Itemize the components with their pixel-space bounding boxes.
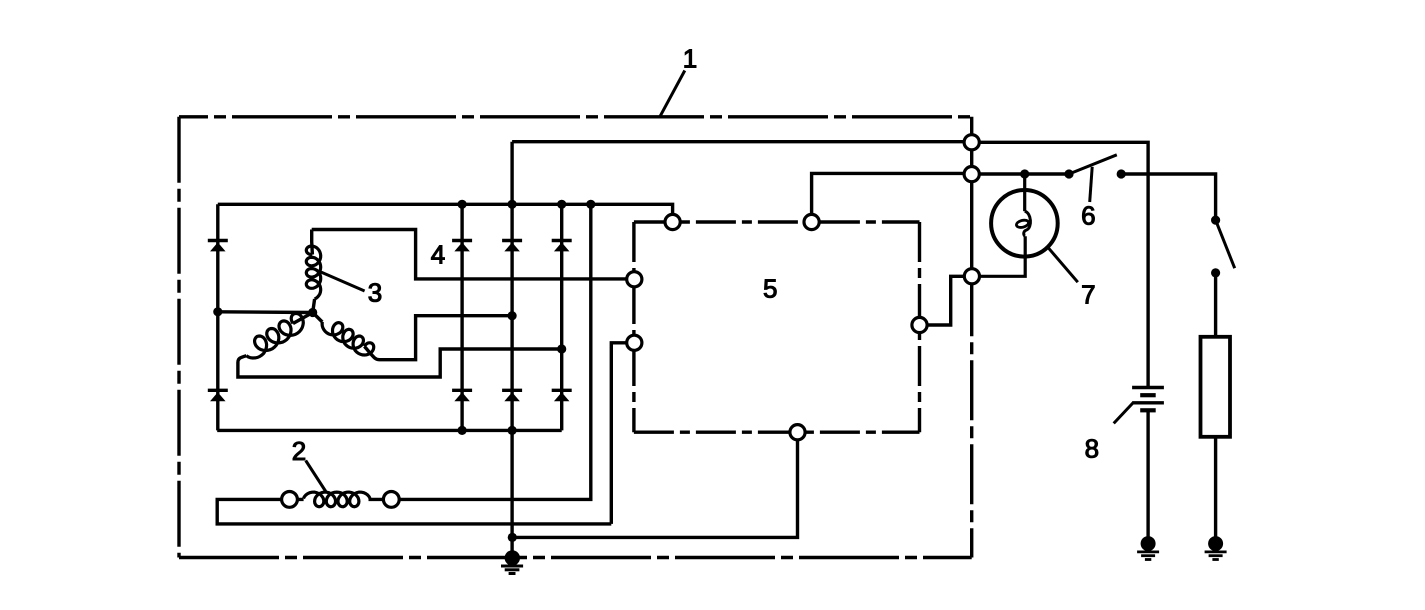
junction regulator ground on output line xyxy=(508,533,517,542)
case terminal no.1 (lamp) xyxy=(964,269,979,284)
wire: star centre to left diode pair xyxy=(218,310,313,314)
enclosure right edge solid upper part through terminals xyxy=(970,117,973,276)
switch 6 left contact xyxy=(1064,169,1073,178)
regulator terminal left-lower (field) xyxy=(627,335,642,350)
wire: regulator right terminal to case terminal xyxy=(927,276,964,325)
wire: field supply drop from top bus xyxy=(369,204,591,499)
wire: right coil lead staircase to column B xyxy=(364,316,512,360)
svg-text:2: 2 xyxy=(292,436,306,466)
svg-text:5: 5 xyxy=(763,274,777,304)
battery 8 plate short 2 xyxy=(1140,408,1156,412)
field terminal circle left xyxy=(282,492,298,508)
switch 6 blade xyxy=(1069,155,1117,174)
wire: ignition feed from case terminal 2 xyxy=(979,172,1069,175)
svg-text:1: 1 xyxy=(683,44,697,74)
diode C-top xyxy=(552,239,572,242)
right switch blade xyxy=(1216,220,1235,268)
regulator box bottom edge xyxy=(634,431,920,434)
enclosure left edge xyxy=(177,117,180,558)
label 8 leader xyxy=(1114,403,1133,424)
battery 8 plate short 1 xyxy=(1140,393,1156,397)
lamp 7 top lead xyxy=(1023,174,1026,211)
junction of right phase on column B xyxy=(507,311,516,320)
resistor (ballast) body xyxy=(1201,337,1231,437)
wire: diode column B / main output line to ground xyxy=(510,142,513,558)
wire: battery feed from output terminal xyxy=(979,142,1148,386)
lamp 7 filament xyxy=(1024,211,1031,236)
diode B-top xyxy=(502,239,522,242)
right switch lower contact xyxy=(1211,268,1220,277)
junction of left phase on column C xyxy=(557,344,566,353)
junction on top bus at column A xyxy=(458,200,467,209)
wire: left coil lead staircase to column C xyxy=(238,349,562,377)
svg-text:4: 4 xyxy=(431,239,445,269)
battery 8 plate long 2 xyxy=(1132,401,1164,404)
diode left-top xyxy=(208,239,228,242)
diode A-top xyxy=(452,239,472,242)
regulator terminal top-mid xyxy=(804,214,819,229)
regulator terminal top-left xyxy=(665,214,680,229)
wire: link from top coil into star centre xyxy=(313,299,315,313)
label 2 leader xyxy=(306,461,326,492)
wire: regulator field terminal to field loop xyxy=(611,343,626,524)
wire: rectifier bottom bus xyxy=(217,429,562,432)
wire: left coil into star centre xyxy=(293,313,313,324)
ground: alternator case (on enclosure bottom) xyxy=(505,550,520,565)
wire: diode column C xyxy=(560,204,563,430)
label 6 leader xyxy=(1090,167,1093,202)
enclosure bottom edge xyxy=(179,556,972,559)
junction on bottom bus at column A xyxy=(458,426,467,435)
regulator terminal bottom (ground) xyxy=(790,425,805,440)
wire: field loop left U xyxy=(217,499,611,524)
wire: regulator top-mid terminal to case terminal xyxy=(812,173,965,222)
wire: regulator bottom terminal to ground line xyxy=(512,440,797,538)
svg-text:6: 6 xyxy=(1081,201,1095,231)
enclosure right edge dash-dot lower part xyxy=(970,276,973,557)
stator phase coil left xyxy=(246,313,303,358)
svg-text:7: 7 xyxy=(1081,280,1095,310)
field coil 2 xyxy=(304,492,371,507)
lamp 7 bulb circle xyxy=(991,190,1058,257)
diode C-bottom xyxy=(552,389,572,392)
wire: from switch 6 to right branch xyxy=(1121,174,1215,220)
label 1 leader xyxy=(660,71,685,117)
case terminal no.2 xyxy=(964,167,979,182)
wire: phase-A lead to regulator xyxy=(312,230,627,279)
wire: right coil into star centre xyxy=(313,313,323,323)
ground: resistor xyxy=(1208,536,1223,551)
ground: battery xyxy=(1141,536,1156,551)
regulator terminal left-upper xyxy=(627,272,642,287)
case terminal output (top) xyxy=(964,135,979,150)
diode A-bottom xyxy=(452,389,472,392)
wire: rectifier left branch (diode pair column) xyxy=(216,204,219,430)
wire: right switch to resistor xyxy=(1214,273,1217,337)
stator phase coil right xyxy=(322,322,374,355)
regulator box 5 top edge xyxy=(634,220,920,223)
regulator box right edge xyxy=(918,222,921,432)
junction on bottom bus at column B xyxy=(507,426,516,435)
switch (ignition) upper contact on right branch xyxy=(1211,216,1220,225)
star centre junction xyxy=(308,308,317,317)
svg-text:3: 3 xyxy=(368,278,382,308)
wire: diode column A xyxy=(460,204,463,430)
diode left-bottom xyxy=(208,389,228,392)
stator phase coil top (winding 3) xyxy=(306,246,320,299)
junction on top bus at column B xyxy=(507,200,516,209)
wire: output lead from column B to terminal xyxy=(512,140,964,143)
battery 8 plate long 1 xyxy=(1132,386,1164,389)
diode B-bottom xyxy=(502,389,522,392)
alternator enclosure box 1 (dash-dot outline) top edge xyxy=(179,115,972,118)
lamp 7 bottom lead to case terminal xyxy=(980,236,1026,276)
regulator terminal right xyxy=(912,317,927,332)
wire: battery negative lead to ground xyxy=(1146,410,1149,543)
wire: rectifier top bus xyxy=(218,204,673,214)
regulator box left edge xyxy=(632,222,635,432)
field terminal circle right xyxy=(383,492,399,508)
junction on left column (star centre tap) xyxy=(213,307,222,316)
label 3 leader xyxy=(320,272,364,291)
junction lamp tap xyxy=(1020,169,1029,178)
switch 6 right contact xyxy=(1117,169,1126,178)
label 7 leader xyxy=(1048,248,1078,282)
svg-text:8: 8 xyxy=(1085,434,1099,464)
wire: resistor to ground xyxy=(1214,437,1217,544)
wire: stub from top coil to phase-A lead xyxy=(310,230,314,255)
junction on top bus at field drop xyxy=(586,200,595,209)
junction on top bus at column C xyxy=(557,200,566,209)
